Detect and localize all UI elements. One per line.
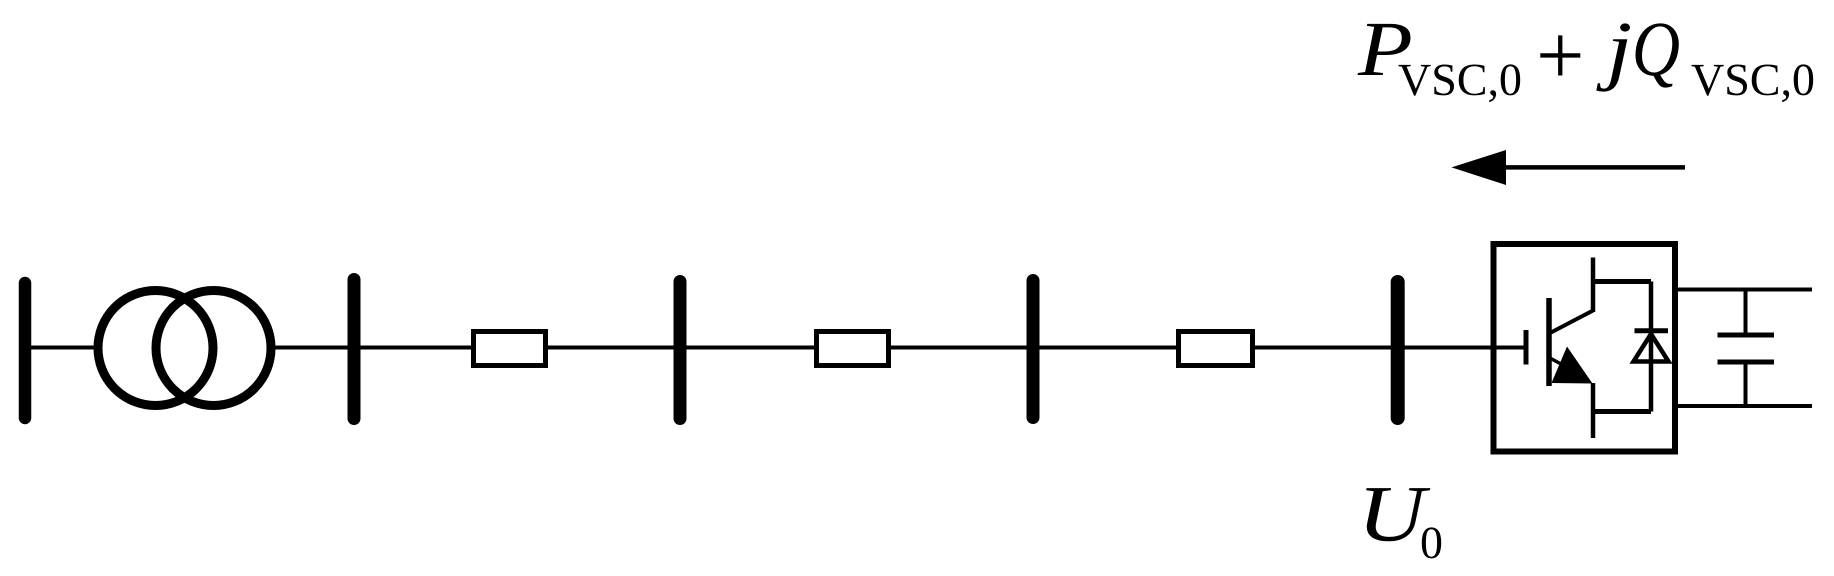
power flow arrow head bbox=[1452, 150, 1507, 185]
impedance Z3 (rectangle) bbox=[1179, 332, 1253, 366]
wire DC bottom bbox=[1678, 404, 1812, 408]
label P bbox=[1358, 24, 1411, 75]
busbar B1 bbox=[19, 283, 32, 418]
label Q bbox=[1636, 23, 1679, 87]
capacitor C1 top plate bbox=[1718, 333, 1775, 338]
label j bbox=[1596, 23, 1630, 91]
transformer T1 (two overlapping circles) bbox=[98, 291, 271, 406]
wire bottom rail inside box bbox=[1593, 409, 1651, 414]
wire top rail inside box bbox=[1593, 279, 1651, 284]
IGBT gate bar bbox=[1524, 330, 1529, 365]
IGBT emitter diagonal bbox=[1549, 358, 1572, 371]
label U0 bbox=[1366, 488, 1430, 541]
IGBT emitter vertical bbox=[1591, 383, 1596, 438]
label subscript VSC,0 (P) bbox=[1399, 64, 1521, 102]
label subscript 0 (U) bbox=[1422, 527, 1441, 558]
power flow arrow shaft bbox=[1505, 165, 1685, 170]
IGBT gate lead wire bbox=[1497, 346, 1527, 350]
busbar B5 (node U0) bbox=[1391, 282, 1405, 418]
wire diode branch vertical bbox=[1649, 282, 1654, 412]
IGBT emitter arrow bbox=[1552, 347, 1593, 384]
capacitor C1 top lead bbox=[1744, 290, 1748, 335]
impedance Z2 (rectangle) bbox=[817, 332, 889, 366]
IGBT collector diagonal bbox=[1550, 311, 1593, 334]
wire DC top bbox=[1678, 288, 1812, 292]
label plus sign bbox=[1540, 35, 1580, 75]
capacitor C1 bottom lead bbox=[1744, 363, 1748, 406]
diode D1 cathode bar bbox=[1635, 328, 1669, 333]
VSC converter box U1 bbox=[1494, 244, 1676, 452]
diode D1 triangle bbox=[1634, 334, 1669, 362]
label subscript VSC,0 (Q) bbox=[1692, 64, 1814, 102]
capacitor C1 bottom plate bbox=[1718, 360, 1775, 365]
IGBT collector stub bbox=[1591, 258, 1596, 313]
impedance Z1 (rectangle) bbox=[474, 332, 546, 366]
IGBT body bar bbox=[1546, 298, 1552, 386]
busbar B4 bbox=[1027, 281, 1040, 418]
wire main horizontal feeder bbox=[31, 346, 1493, 350]
busbar B2 bbox=[348, 280, 361, 419]
busbar B3 bbox=[674, 282, 687, 419]
